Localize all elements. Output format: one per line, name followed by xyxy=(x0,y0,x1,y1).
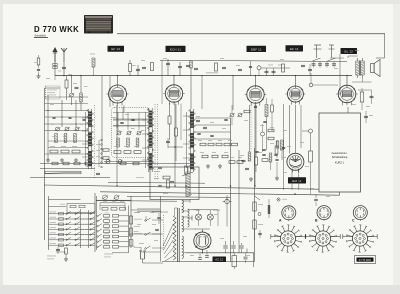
EF11 top cap C16 xyxy=(308,64,312,76)
wave switch left block wires xyxy=(49,193,96,252)
left bank extra rungs xyxy=(45,97,89,154)
right block bottom text xyxy=(104,253,129,257)
wire rail R4 xyxy=(96,200,177,203)
fuse F1 xyxy=(232,253,237,269)
tube V4 EF11 xyxy=(285,86,305,105)
EF11 grid connector circle xyxy=(302,129,313,133)
svg-text:D 770 WKK: D 770 WKK xyxy=(34,25,79,34)
label EL12 xyxy=(341,48,358,54)
wire osc coupling vertical xyxy=(190,61,203,109)
osc label text xyxy=(206,72,218,73)
dial lamp LP1 xyxy=(196,214,202,220)
label EM11 xyxy=(288,177,306,183)
wire feeders wafer S1 xyxy=(82,112,88,166)
svg-text:Gesamtstrom-: Gesamtstrom- xyxy=(332,152,348,155)
label EF13 xyxy=(108,46,125,52)
tuner rung wires xyxy=(45,111,89,131)
detector node circle xyxy=(261,124,265,152)
wire bus segment xyxy=(40,168,95,170)
input resistor R1 xyxy=(65,76,68,100)
mid junction nodes xyxy=(116,185,295,194)
EBF11 ground G6 xyxy=(249,177,253,181)
svg-text:D 770 WKK: D 770 WKK xyxy=(359,259,372,262)
wire feeders wafer S2 xyxy=(142,112,149,168)
svg-text:AZ 12: AZ 12 xyxy=(215,257,223,261)
osc resistor row xyxy=(114,151,141,154)
wires matrix to transformer xyxy=(129,196,161,262)
speaker assembly box xyxy=(150,167,199,200)
wire EL12 grid feed xyxy=(338,54,340,94)
ground G2 xyxy=(60,158,64,162)
tube V3 EBF11 xyxy=(245,86,266,106)
wire left verticals xyxy=(48,95,76,160)
EF13 screen resistor R2 xyxy=(129,60,136,76)
output transformer T3 xyxy=(356,58,364,78)
label AZ12 xyxy=(213,257,227,263)
EBF11 resistor R6 xyxy=(255,105,258,172)
svg-text:KURZ 1: KURZ 1 xyxy=(335,161,345,165)
band switch wafer S3 xyxy=(189,109,196,172)
wire input vertical xyxy=(45,88,61,240)
socket A top view xyxy=(282,206,296,221)
left bank contact column 2 xyxy=(99,139,102,168)
socket B top view xyxy=(317,206,331,221)
fuse indicator circle xyxy=(277,198,287,201)
input trimmer C1 xyxy=(69,76,75,105)
ground G3 xyxy=(74,158,78,162)
wave switch row L4 xyxy=(50,227,95,231)
wire output top rail xyxy=(160,60,347,75)
mains voltage selector xyxy=(134,213,164,250)
wire EM11 bottom xyxy=(292,170,299,190)
EBF11 caps mid xyxy=(242,160,250,169)
input capacitor C2 xyxy=(73,83,79,89)
mid clutter EBF-EF xyxy=(240,120,304,161)
mid clutter EM11 area xyxy=(275,140,309,180)
EF13 top capacitor C6 xyxy=(136,65,140,76)
wire detector link xyxy=(261,65,290,69)
EF11 resistor R7 xyxy=(309,133,313,186)
EBF11 coil L8 xyxy=(248,105,251,161)
tuner box interior wires xyxy=(113,113,148,131)
speaker LS xyxy=(371,60,381,77)
wave switch row R2 xyxy=(97,218,129,223)
gang dashed line IF xyxy=(250,105,252,150)
output divider stack xyxy=(253,196,263,240)
ECH11 node xyxy=(168,146,183,148)
svg-text:EL 12: EL 12 xyxy=(345,49,354,53)
svg-text:Schaltbild: Schaltbild xyxy=(35,33,47,37)
subtitle Schaltbild xyxy=(34,33,48,37)
tuner trimmer C5 xyxy=(74,127,80,131)
ECH11 resistor R4 xyxy=(175,104,178,161)
IF ground G4 xyxy=(206,164,210,168)
trimmer T2 top xyxy=(328,45,336,61)
wire AVC bus xyxy=(44,185,319,189)
tube V6 EL12 xyxy=(336,85,358,105)
wave switch row R1 xyxy=(97,213,129,218)
UKW input dashed box xyxy=(46,86,61,99)
IF capacitor C13 xyxy=(196,120,207,128)
electrolytic C21 xyxy=(223,241,228,253)
tube V2 ECH11 xyxy=(163,85,184,105)
input coil L1 xyxy=(80,76,83,111)
wire EM11 feed vertical xyxy=(282,104,285,190)
tube V1 EF13 xyxy=(107,85,129,106)
wafer S2 gang dashed line xyxy=(155,104,158,180)
header rule xyxy=(117,33,385,35)
pilot fuse symbol xyxy=(223,195,232,226)
IF resistor row 1 xyxy=(200,143,238,146)
wire EL12 anode xyxy=(346,75,347,85)
socket A pin diagram xyxy=(271,225,305,252)
EBF11 trimmer C14 xyxy=(229,105,235,125)
socket label B xyxy=(315,219,318,223)
band switch wafer S1 xyxy=(87,109,94,169)
socket C top view xyxy=(353,206,367,221)
field coil choke xyxy=(154,167,193,197)
electrolytic C23 xyxy=(239,243,244,253)
ECH11 resistor R3 xyxy=(168,103,171,140)
tube V7 AZ12 rectifier xyxy=(194,230,211,252)
wire EF11 anode xyxy=(295,75,296,86)
wire EF13 anode xyxy=(117,75,118,85)
mid resistors on bus xyxy=(52,162,139,165)
padder trimmer C20 xyxy=(113,195,119,200)
wire ECH11 anode xyxy=(173,75,174,85)
antenna A1 arrow xyxy=(52,47,57,62)
mains switch text xyxy=(136,177,161,211)
wave switch bottom parts xyxy=(47,247,68,261)
tone capacitor C18 xyxy=(364,111,373,123)
gap vertical bus xyxy=(88,210,90,248)
antenna A2 dipole xyxy=(61,48,67,62)
hatched trimmer near antenna xyxy=(90,54,95,76)
tuner trimmer C3 xyxy=(55,127,61,131)
wire bus segment2 xyxy=(30,177,110,179)
socket C pin diagram xyxy=(343,225,377,252)
AZ12 heater wires xyxy=(195,229,210,259)
mid small parts xyxy=(96,166,188,187)
wire rail R5 xyxy=(108,181,205,184)
right switch block wires xyxy=(97,196,132,253)
diode load resistors xyxy=(268,129,274,140)
padder trimmer C19 xyxy=(96,195,131,200)
svg-text:Schaltstellung: Schaltstellung xyxy=(332,156,348,159)
antenna plug connectors xyxy=(53,62,66,76)
power transformer T4 xyxy=(173,200,183,262)
mid clutter IF xyxy=(196,116,232,153)
radio cabinet photo xyxy=(84,15,113,34)
detector parts xyxy=(254,106,284,170)
ECH11 cap C11 xyxy=(178,62,182,76)
mains plug xyxy=(128,246,163,263)
osc coil L7 xyxy=(136,138,139,147)
heater coil bar xyxy=(45,171,81,174)
type label plate xyxy=(355,256,376,264)
svg-text:EM 11: EM 11 xyxy=(292,179,301,183)
transformer taps fan xyxy=(163,201,196,261)
wire right drop from note box xyxy=(339,192,341,195)
osc trimmer C9 xyxy=(136,131,142,135)
mid clutter under EF13 xyxy=(112,114,145,147)
osc trimmer C8 xyxy=(126,131,132,135)
socket label C xyxy=(352,219,355,223)
IF ground G5 xyxy=(218,164,222,168)
osc trimmer C7 xyxy=(116,131,122,135)
wave switch row L1 xyxy=(50,211,95,215)
right block bus resistor R9 xyxy=(129,212,140,232)
label EBF11 xyxy=(247,46,267,52)
bus resistor R10 xyxy=(129,228,132,236)
wafer S1 gang dashed line xyxy=(94,105,96,178)
IF rung wires xyxy=(195,118,231,139)
mains area clutter xyxy=(135,212,168,252)
svg-text:EBF 11: EBF 11 xyxy=(251,47,262,51)
socket B pin diagram xyxy=(306,225,340,252)
tuner coil L3 xyxy=(64,134,67,143)
wire ground bus bottom xyxy=(162,249,255,268)
EF11 verticals xyxy=(290,105,302,154)
bus box B2 xyxy=(129,240,133,247)
label ECH11 xyxy=(166,46,186,52)
EL12 grid node circle xyxy=(309,73,338,87)
wave switch row L5 xyxy=(50,232,95,236)
top row extra parts xyxy=(141,58,305,72)
EBF11 trimmer C15 xyxy=(237,113,243,117)
wire rail R3 xyxy=(127,196,231,199)
osc trimmer pair bottom xyxy=(104,160,150,164)
ECH11 capacitor C12 xyxy=(166,138,170,148)
svg-text:EF 11: EF 11 xyxy=(290,47,299,51)
ECH11 grid cap C10 xyxy=(163,58,170,76)
tuner resistor row xyxy=(50,146,80,153)
wave switch row R7 xyxy=(97,244,129,249)
electrolytic C22 xyxy=(231,241,236,253)
cap C24 xyxy=(244,253,248,263)
wire EF13 cathode drop xyxy=(113,105,145,128)
svg-text:ECH 11: ECH 11 xyxy=(170,47,181,51)
wire B+ lower bus xyxy=(100,192,340,195)
tuning unit dashed enclosure xyxy=(112,108,150,158)
wire anode supply bus xyxy=(55,75,352,77)
wave switch row L7 xyxy=(50,243,95,247)
wire EF13 left vertical xyxy=(102,75,234,164)
band switch wafer S2 xyxy=(147,108,154,172)
wave switch row L2 xyxy=(50,217,95,221)
tuner coil L4 xyxy=(74,134,77,143)
wire EL12 down xyxy=(347,107,349,113)
EBF11 caps top xyxy=(265,68,276,76)
note box Gesamtstrom xyxy=(319,113,361,192)
svg-text:EF 13: EF 13 xyxy=(111,47,120,51)
coupling caps row xyxy=(312,62,337,68)
trimmer T1 top xyxy=(313,45,322,61)
wire heater bus xyxy=(40,163,192,165)
socket label A xyxy=(279,219,282,223)
tube V5 EM11 magic eye xyxy=(287,153,304,172)
EL12 capacitor C17 xyxy=(358,90,374,104)
wave switch row R5 xyxy=(97,233,129,238)
wave switch row R6 xyxy=(97,239,129,244)
note box outside clutter xyxy=(310,186,330,206)
label EF11 xyxy=(286,45,304,51)
wire stage verticals xyxy=(110,76,255,186)
wave switch row L6 xyxy=(50,237,95,241)
IF resistor row 2 xyxy=(202,155,228,158)
heater winding 6V xyxy=(188,209,199,227)
EL12 cathode resistor R8 xyxy=(360,88,364,110)
wire speaker leads xyxy=(376,34,385,58)
wire feeders wafer S3 xyxy=(183,112,190,168)
tuner coil L2 xyxy=(55,134,58,143)
dial lamp feed wire xyxy=(188,210,218,226)
left input extra xyxy=(46,74,88,105)
EBF11 resistor R5 xyxy=(244,110,250,113)
EBF11 top node circle xyxy=(257,66,261,76)
wave switch row L3 xyxy=(50,222,95,226)
tuner trimmer C4 xyxy=(64,127,70,131)
right block top boxes xyxy=(102,201,126,210)
left block top coil K1 xyxy=(60,204,95,213)
transformer area clutter xyxy=(188,194,250,256)
AF resistor row xyxy=(229,157,243,163)
mid clutter left bank xyxy=(47,110,85,137)
wire IF verticals xyxy=(231,118,255,262)
EL12 wires extra xyxy=(330,50,372,107)
title D 770 WKK xyxy=(34,25,79,34)
connector strip xyxy=(268,199,270,218)
wave switch row R3 xyxy=(97,223,129,228)
wave switch row R4 xyxy=(97,228,129,233)
ground G1 xyxy=(46,158,50,162)
IF2 transformer coils xyxy=(265,98,273,150)
dial lamp LP2 xyxy=(199,214,214,226)
wire EBF11 anode xyxy=(255,75,256,86)
osc coil L6 xyxy=(127,138,130,147)
antenna side parts xyxy=(34,55,41,78)
osc coil L5 xyxy=(117,138,120,147)
left bank parts near wafer xyxy=(96,144,109,159)
